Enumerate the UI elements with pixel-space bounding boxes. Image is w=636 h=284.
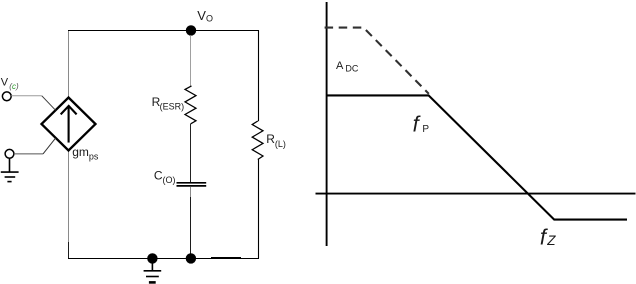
svg-text:(ESR): (ESR) [160, 101, 185, 111]
ground at bottom rail [144, 263, 162, 277]
solid gain curve [327, 95, 627, 219]
svg-text:A: A [336, 60, 344, 72]
arrow inside current source [61, 106, 76, 142]
svg-text:P: P [422, 124, 429, 135]
wire left branch lower [68, 151, 70, 243]
wire bottom rail [68, 258, 259, 260]
svg-text:(L): (L) [275, 139, 286, 149]
node VO junction dot [186, 25, 196, 35]
ground at Vc- terminal [1, 158, 19, 182]
wire right branch upper [258, 31, 260, 122]
junction dot at bottom ground [147, 253, 157, 263]
resistor R_L [252, 121, 263, 160]
svg-text:(O): (O) [163, 175, 176, 185]
wire top rail [68, 30, 259, 32]
terminal Vc circle [2, 92, 11, 101]
junction dot at output branch bottom [186, 253, 196, 263]
wire Vc to source [11, 95, 42, 97]
terminal ground-side circle [5, 149, 14, 158]
wire resistor to capacitor [190, 124, 192, 182]
svg-text:R: R [266, 132, 275, 146]
svg-text:(c): (c) [9, 82, 19, 91]
plot x-axis [316, 193, 636, 195]
current source gm_ps diamond [42, 98, 96, 151]
svg-text:Z: Z [546, 233, 556, 248]
resistor R_ESR [185, 86, 196, 124]
wire bottom rail thick overlap segment [211, 257, 241, 259]
wire middle branch upper [190, 35, 192, 86]
wire left branch upper [68, 31, 70, 98]
wire middle branch lower [190, 187, 192, 197]
dashed uncompensated gain curve [325, 28, 429, 94]
capacitor C_O plates [177, 183, 207, 186]
svg-text:DC: DC [345, 64, 358, 74]
plot y-axis [326, 2, 328, 246]
svg-text:V: V [1, 77, 9, 89]
wire right branch lower [258, 160, 260, 259]
wire ground terminal to source [14, 153, 43, 155]
